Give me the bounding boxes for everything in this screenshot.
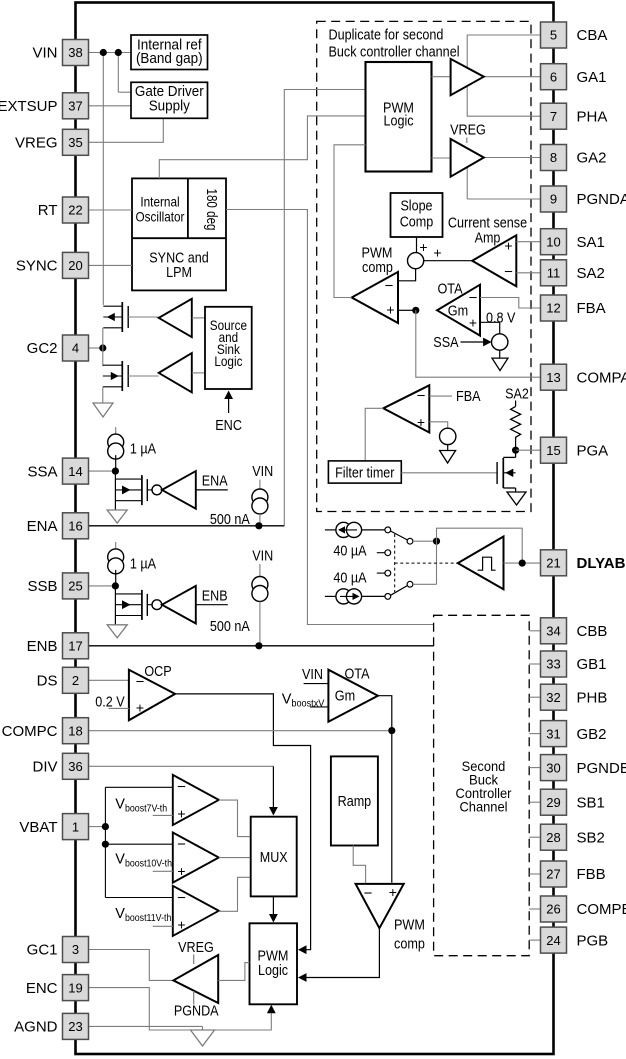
wire gate upper FET to buffer <box>128 316 159 318</box>
pin 16 ENA <box>63 513 89 539</box>
svg-text:ENA: ENA <box>27 518 58 535</box>
junction COMPC node <box>388 727 395 734</box>
svg-text:Slope: Slope <box>400 198 432 215</box>
svg-text:5: 5 <box>550 28 557 43</box>
wire 40uA to switch contact <box>362 529 385 531</box>
wire VBAT to comp3 - <box>105 897 172 899</box>
wire VBAT to comp2 - <box>105 843 172 845</box>
svg-text:16: 16 <box>68 519 82 534</box>
svg-text:PGA: PGA <box>577 442 609 459</box>
svg-text:+: + <box>389 884 397 900</box>
pin 25 SSB <box>63 573 89 599</box>
svg-text:FBA: FBA <box>456 388 481 405</box>
dashed box: duplicate for second buck controller channel <box>317 21 531 511</box>
svg-text:−: − <box>385 278 394 295</box>
wire buffer to source/sink logic <box>192 317 205 319</box>
wire comp3 to MUX <box>219 877 251 911</box>
wire comp2 to MUX <box>219 857 251 859</box>
op-amp OTA Gm channel A <box>437 285 480 336</box>
wire GC1 pin to driver output <box>89 950 173 981</box>
wire VIN branch down <box>117 53 119 93</box>
svg-text:21: 21 <box>546 556 560 571</box>
wire OTA + to 0.8V ref <box>480 322 500 334</box>
wire schmitt output to pin 21 <box>504 562 541 564</box>
tick VREG driver top <box>193 955 195 965</box>
wire buffer to source/sink logic 2 <box>192 372 205 374</box>
svg-text:33: 33 <box>546 657 560 672</box>
svg-text:GA1: GA1 <box>577 69 607 86</box>
divider oscillator/180deg <box>187 178 189 238</box>
svg-text:LPM: LPM <box>166 264 192 281</box>
svg-text:SA2: SA2 <box>505 386 529 403</box>
transistor GC2 upper (source) FET <box>121 302 123 332</box>
svg-text:COMPC: COMPC <box>2 723 58 740</box>
junction GC2 <box>99 344 106 351</box>
svg-text:4: 4 <box>72 341 79 356</box>
dashed control to schmitt <box>395 562 458 564</box>
wire filter timer to PGA FET gate <box>401 472 497 474</box>
svg-text:500 nA: 500 nA <box>210 618 250 635</box>
wire CBA to PHA bootstrap <box>467 35 540 116</box>
svg-text:+: + <box>419 239 427 255</box>
svg-text:Gm: Gm <box>335 688 355 705</box>
svg-text:−: − <box>177 778 186 795</box>
svg-text:FBA: FBA <box>577 300 606 317</box>
svg-text:1 µA: 1 µA <box>130 441 156 458</box>
comparator OCP <box>129 670 175 721</box>
svg-text:180 deg: 180 deg <box>203 189 219 231</box>
svg-text:comp: comp <box>362 259 393 276</box>
wire RT to oscillator <box>89 209 132 211</box>
wire OCP output to PWM logic C <box>175 694 311 950</box>
svg-text:OTA: OTA <box>345 666 370 683</box>
svg-text:Buck controller channel: Buck controller channel <box>329 44 460 61</box>
wire ENC pin to PWM logic C <box>89 988 271 1030</box>
wire VIN branch to gate driver supply <box>118 91 131 93</box>
svg-text:26: 26 <box>546 902 560 917</box>
wire contact e to node <box>413 583 437 585</box>
arrowhead PWM comp C into logic <box>298 973 307 982</box>
block ramp generator <box>331 756 378 845</box>
svg-text:40 µA: 40 µA <box>333 569 366 586</box>
wire SYNC to sync/lpm <box>89 264 132 266</box>
svg-text:Gm: Gm <box>448 303 468 320</box>
stub comp3 + <box>153 925 173 927</box>
svg-text:Logic: Logic <box>384 113 414 130</box>
wire stub PHB <box>529 696 540 698</box>
soft start SSA with ENA discharge <box>115 427 117 437</box>
contact switch d <box>385 570 391 576</box>
dashed box: second buck controller channel <box>434 615 530 955</box>
svg-text:−: − <box>177 836 186 853</box>
svg-text:40 µA: 40 µA <box>333 543 366 560</box>
svg-text:(Band gap): (Band gap) <box>136 51 203 67</box>
pin 1 VBAT <box>63 814 89 840</box>
pin 18 COMPC <box>63 718 89 744</box>
wire PWM comp C output to PWM logic C <box>302 928 379 977</box>
wire PWM logic to GA2 driver <box>432 157 451 159</box>
wire VIN rail down to GC2 source FET <box>102 53 104 305</box>
op-amp current sense <box>472 235 516 286</box>
buffer source driver <box>159 299 192 337</box>
arrowhead 40uA bottom direction <box>353 593 360 600</box>
arrowhead OCP into PWM logic <box>298 945 307 954</box>
wire FBA pin to OTA inverting <box>480 298 541 309</box>
svg-text:+: + <box>433 245 441 261</box>
wire comp1 to MUX <box>219 800 251 837</box>
svg-text:OCP: OCP <box>144 663 171 680</box>
pin 29 SB1 <box>541 789 567 815</box>
block PWM logic channel C <box>250 923 298 1004</box>
wire PWM logic to GC1 driver input <box>218 963 249 981</box>
block source and sink logic <box>205 307 252 389</box>
op-amp OTA Gm channel C <box>328 670 378 722</box>
wire GC2 pin to FET node <box>89 347 103 349</box>
svg-text:SA1: SA1 <box>577 234 605 251</box>
pin 19 ENC <box>63 975 89 1001</box>
pin 4 GC2 <box>63 335 89 361</box>
wire stub CBB <box>529 630 540 632</box>
wire COMPC to compensation node <box>89 730 388 732</box>
svg-text:−: − <box>469 289 478 306</box>
svg-text:13: 13 <box>546 370 560 385</box>
wire current sense amp to summing node <box>424 260 473 262</box>
svg-text:3: 3 <box>72 942 79 957</box>
block gate driver supply <box>131 82 208 118</box>
block internal ref (band gap) <box>131 35 208 70</box>
svg-text:29: 29 <box>546 795 560 810</box>
block PWM logic channel A <box>366 62 432 172</box>
wire DS to OCP comparator <box>89 679 129 681</box>
hysteresis symbol <box>478 557 496 570</box>
wire VREG to gate driver supply bottom <box>89 118 163 142</box>
schmitt trigger DLYAB <box>458 537 504 590</box>
svg-text:GB2: GB2 <box>577 726 607 743</box>
svg-text:COMPB: COMPB <box>577 901 626 918</box>
soft start SSB with ENB discharge <box>115 542 117 552</box>
junction VBAT 1 <box>102 823 109 830</box>
pin 9 PGNDA <box>541 186 567 212</box>
svg-text:−: − <box>364 885 373 902</box>
svg-text:+: + <box>177 863 185 879</box>
tick VREG to GA2 driver <box>466 138 468 144</box>
wire summing node to PWM comp inverting <box>398 269 416 281</box>
svg-text:PGNDB: PGNDB <box>577 760 626 777</box>
svg-text:EXTSUP: EXTSUP <box>0 98 58 115</box>
wire stub PGNDB <box>529 767 540 769</box>
wire DIV down to MUX <box>272 766 274 811</box>
pin 3 GC1 <box>63 937 89 963</box>
pin 10 SA1 <box>541 229 567 255</box>
svg-text:DLYAB: DLYAB <box>577 555 626 572</box>
wire stub GB1 <box>529 663 540 665</box>
svg-text:+: + <box>417 414 425 430</box>
svg-text:Ramp: Ramp <box>338 793 372 810</box>
ground PGA FET source <box>507 492 526 505</box>
svg-text:17: 17 <box>68 639 82 654</box>
comparator Vboost11V <box>173 886 219 936</box>
pin 31 GB2 <box>541 721 567 747</box>
wire OTA C output to PWM comp + <box>378 696 392 883</box>
svg-text:Duplicate for second: Duplicate for second <box>329 27 444 44</box>
svg-text:27: 27 <box>546 867 560 882</box>
comparator FBA fault <box>383 385 429 432</box>
pin 12 FBA <box>541 295 567 321</box>
wire COMPA node to pin 13 <box>416 310 541 377</box>
wire EXTSUP to gate driver supply <box>89 105 131 107</box>
svg-text:SYNC: SYNC <box>16 258 58 275</box>
svg-text:−: − <box>504 264 513 281</box>
wire stub PGB <box>529 939 540 941</box>
arrowhead ENC up <box>224 391 233 400</box>
ground 0.8V ref <box>492 358 508 371</box>
pin 24 PGB <box>541 927 567 953</box>
switch blade bottom <box>391 586 408 596</box>
divider oscillator/sync <box>132 237 226 239</box>
wire slope comp to summing node <box>416 237 418 253</box>
svg-text:COMPA: COMPA <box>577 369 626 386</box>
svg-text:23: 23 <box>68 1019 82 1034</box>
wire node down to contact e <box>436 541 438 584</box>
svg-text:36: 36 <box>68 759 82 774</box>
svg-text:+: + <box>386 302 394 318</box>
junction delay cap node <box>433 538 440 545</box>
wire stub SB1 <box>529 801 540 803</box>
wire SA2 to resistor <box>515 401 517 407</box>
wire stub GB2 <box>529 733 540 735</box>
junction VIN rail <box>100 49 107 56</box>
wire SA2 pin to amp - <box>516 272 540 274</box>
pin 28 SB2 <box>541 824 567 850</box>
svg-text:VBAT: VBAT <box>19 819 57 836</box>
pin 15 PGA <box>541 437 567 463</box>
stub comp1 + <box>153 814 173 816</box>
wire oscillator clock to PWM logic <box>159 116 365 178</box>
switch blade top <box>391 531 408 540</box>
svg-text:CBA: CBA <box>577 27 608 44</box>
dashed switch link <box>394 534 396 592</box>
pin 20 SYNC <box>63 252 89 278</box>
wire stub COMPB <box>529 908 540 910</box>
svg-text:0.8 V: 0.8 V <box>486 309 515 326</box>
block MUX <box>251 817 297 897</box>
current source 40uA bottom <box>325 595 336 597</box>
wire GA2 driver bottom to PGNDA <box>466 162 468 199</box>
pin 17 ENB <box>63 633 89 659</box>
svg-text:8: 8 <box>550 150 557 165</box>
svg-text:GA2: GA2 <box>577 150 607 167</box>
svg-text:OTA: OTA <box>438 281 463 298</box>
wire VIN pin38 to internal ref <box>89 52 131 54</box>
wire MUX to PWM logic C <box>272 896 274 918</box>
pin 5 CBA <box>541 22 567 48</box>
wire PWM logic to GA1 driver <box>432 76 451 78</box>
svg-text:7: 7 <box>550 109 557 124</box>
svg-text:GC2: GC2 <box>27 340 58 357</box>
pin 13 COMPA <box>541 364 567 390</box>
svg-text:34: 34 <box>546 624 560 639</box>
wire lower FET source to ground <box>102 387 104 403</box>
arrowhead MUX into PWM logic <box>269 914 278 923</box>
svg-text:AGND: AGND <box>14 1019 58 1036</box>
svg-text:ENC: ENC <box>26 980 58 997</box>
transistor PGA pulldown FET <box>515 450 517 457</box>
comparator Vboost10V <box>173 833 219 883</box>
svg-text:−: − <box>177 889 186 906</box>
svg-text:25: 25 <box>68 579 82 594</box>
svg-text:ENC: ENC <box>215 417 242 434</box>
wire ENA enable up to PWM logic <box>284 90 365 526</box>
wire comparator + to threshold source <box>429 422 447 428</box>
svg-text:19: 19 <box>68 980 82 995</box>
svg-text:CBB: CBB <box>577 623 608 640</box>
svg-text:PGNDA: PGNDA <box>577 191 626 208</box>
wire PWM comp + to OTA output node <box>398 309 413 311</box>
stub contact d <box>377 572 385 574</box>
svg-text:37: 37 <box>68 99 82 114</box>
comparator PWM comp channel C <box>356 884 404 928</box>
svg-text:12: 12 <box>546 301 560 316</box>
arrowhead SSA into ref <box>483 338 492 347</box>
svg-text:PGB: PGB <box>577 932 609 949</box>
ground AGND <box>191 1030 215 1046</box>
wire SSA clamp arrow <box>461 341 486 343</box>
wire GC2 rail between FETs <box>102 328 104 366</box>
pin 14 SSA <box>63 458 89 484</box>
svg-text:GC1: GC1 <box>27 942 58 959</box>
wire 40uA bottom to contact f <box>362 595 385 597</box>
svg-text:−: − <box>417 388 426 405</box>
svg-text:ENA: ENA <box>202 473 228 490</box>
svg-text:+: + <box>177 916 185 932</box>
svg-text:VIN: VIN <box>252 548 273 565</box>
wire PGA node to pin 15 <box>516 449 541 451</box>
svg-text:35: 35 <box>68 135 82 150</box>
svg-text:RT: RT <box>38 202 58 219</box>
svg-text:Comp: Comp <box>400 214 434 231</box>
pin 2 DS <box>63 667 89 693</box>
svg-text:DIV: DIV <box>32 759 57 776</box>
svg-text:SA2: SA2 <box>577 265 605 282</box>
svg-text:32: 32 <box>546 690 560 705</box>
source 0.8V reference <box>492 334 508 350</box>
svg-text:6: 6 <box>550 69 557 84</box>
wire VBAT to comp1 - <box>105 786 172 788</box>
svg-text:VIN: VIN <box>302 666 323 683</box>
svg-text:+: + <box>136 700 144 716</box>
stub contact c <box>377 552 385 554</box>
svg-text:15: 15 <box>546 443 560 458</box>
block filter timer <box>328 461 401 483</box>
wire VBAT to comparators <box>89 826 102 828</box>
pin 22 RT <box>63 197 89 223</box>
svg-text:−: − <box>136 673 145 690</box>
svg-text:SSA: SSA <box>27 463 57 480</box>
svg-text:28: 28 <box>546 830 560 845</box>
wire GA2 driver output to pin 8 <box>484 157 541 159</box>
wire VboostxV input OTA C <box>310 706 328 708</box>
svg-text:10: 10 <box>546 234 560 249</box>
source FBA threshold <box>440 428 456 444</box>
svg-text:38: 38 <box>68 45 82 60</box>
wire VIN input OTA C <box>304 683 329 685</box>
pin 21 DLYAB <box>541 550 567 576</box>
wire ramp to PWM comp - <box>353 846 365 884</box>
comparator Vboost7V <box>173 775 219 825</box>
stub 0.2V to OCP + <box>109 707 129 709</box>
svg-text:+: + <box>177 805 185 821</box>
wire feedback loop DLYAB <box>437 528 523 563</box>
arrowhead 40uA top direction <box>338 526 345 533</box>
pin 7 PHA <box>541 103 567 129</box>
svg-text:DS: DS <box>37 673 58 690</box>
svg-text:11: 11 <box>547 266 561 281</box>
wire PWM comp output to PWM logic <box>334 145 366 298</box>
svg-text:1: 1 <box>72 819 79 834</box>
contact switch f <box>385 594 391 600</box>
svg-text:Logic: Logic <box>258 962 288 979</box>
svg-text:ENB: ENB <box>27 638 58 655</box>
junction DLYAB output <box>519 560 526 567</box>
resistor SA2-PGA <box>511 406 521 441</box>
svg-text:ENB: ENB <box>202 588 228 605</box>
svg-text:Oscillator: Oscillator <box>136 209 185 225</box>
svg-text:Filter timer: Filter timer <box>335 465 394 482</box>
junction VBAT 2 <box>102 841 109 848</box>
svg-text:PGNDA: PGNDA <box>174 1003 219 1020</box>
svg-text:Channel: Channel <box>459 799 507 815</box>
svg-text:VREG: VREG <box>178 939 214 956</box>
junction OTA output / COMPA <box>412 307 419 314</box>
ground FBA threshold <box>440 451 456 464</box>
svg-text:2: 2 <box>72 673 79 688</box>
comparator PWM comp channel A <box>352 272 398 323</box>
svg-text:30: 30 <box>546 760 560 775</box>
pin 6 GA1 <box>541 64 567 90</box>
pin 27 FBB <box>541 861 567 887</box>
buffer GC1 driver <box>173 955 218 1003</box>
svg-text:22: 22 <box>68 203 82 218</box>
svg-text:Logic: Logic <box>214 353 242 369</box>
block slope comp <box>391 193 443 237</box>
wire VBAT rail <box>104 787 106 897</box>
junction ENA pullup <box>255 522 262 529</box>
ground GC2 sink FET <box>93 403 113 417</box>
stub comp2 + <box>153 870 173 872</box>
wire ENA pin net <box>89 525 284 527</box>
pin 38 VIN <box>63 40 89 66</box>
svg-text:Amp: Amp <box>475 230 501 247</box>
wire SA1 pin to amp + <box>516 241 540 243</box>
summing node circle <box>408 253 424 269</box>
wire DIV to MUX select <box>89 765 273 767</box>
svg-text:VREG: VREG <box>450 122 486 139</box>
svg-text:+: + <box>469 315 477 331</box>
svg-text:0.2 V: 0.2 V <box>95 693 124 710</box>
wire ENC into source/sink logic <box>228 396 230 413</box>
svg-text:PWM: PWM <box>394 917 425 934</box>
svg-text:20: 20 <box>68 258 82 273</box>
svg-text:VREG: VREG <box>15 135 58 152</box>
wire contact b to node <box>413 540 433 542</box>
svg-text:MUX: MUX <box>260 849 288 866</box>
wire PGNDA to pin 9 <box>467 198 540 200</box>
svg-text:comp: comp <box>394 936 425 953</box>
wire FBA label stub <box>429 395 452 397</box>
svg-text:+: + <box>504 238 512 254</box>
svg-text:Internal: Internal <box>140 194 179 210</box>
svg-text:FBB: FBB <box>577 866 606 883</box>
